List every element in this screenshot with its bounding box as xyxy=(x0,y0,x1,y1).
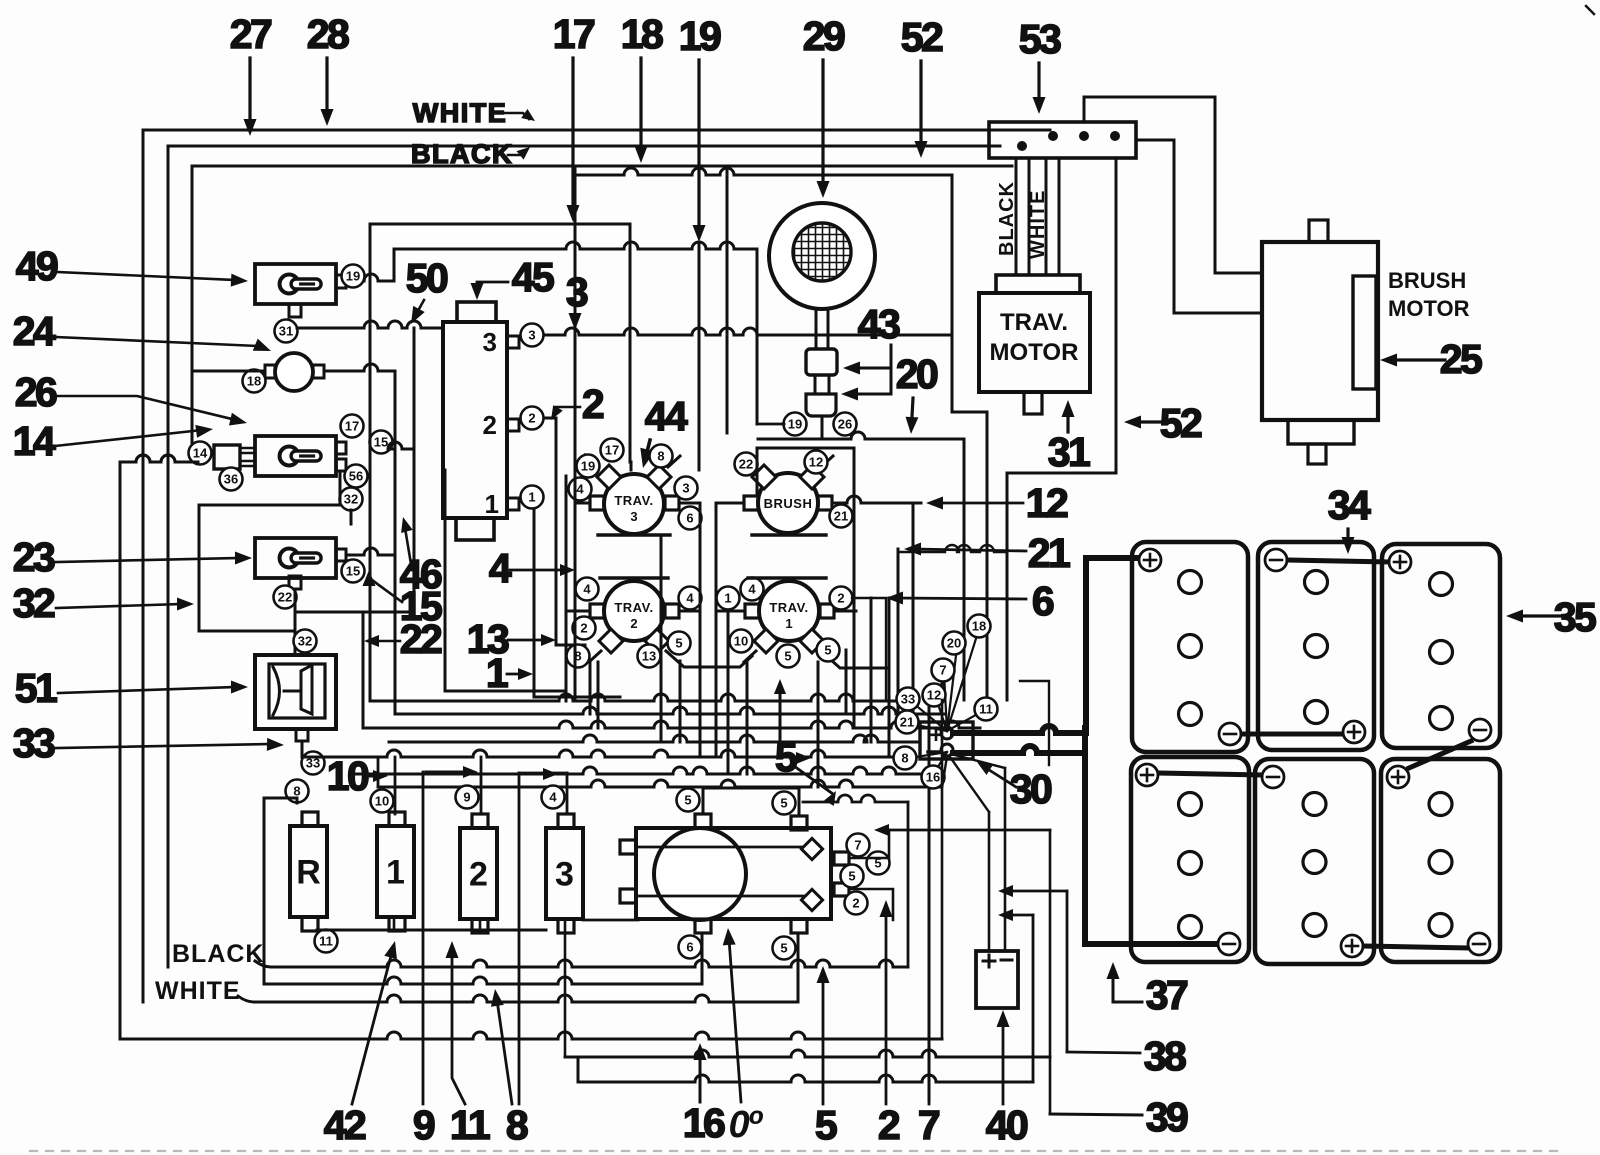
svg-text:18: 18 xyxy=(621,11,663,57)
terminal dot mid xyxy=(1079,131,1089,141)
fan wires minus xyxy=(916,752,947,757)
squiggle left xyxy=(120,455,198,462)
motor frame xyxy=(636,828,831,919)
terminal 5 TRAV2 xyxy=(668,632,691,655)
terminal 32 R51 xyxy=(294,630,317,653)
svg-text:11: 11 xyxy=(319,934,333,949)
TRAV3 diamond tr xyxy=(647,465,671,489)
wire x747 drop xyxy=(746,662,749,774)
terminal 19 horn xyxy=(784,413,807,436)
svg-text:4: 4 xyxy=(489,545,512,591)
wire white main top xyxy=(143,129,1050,132)
wire 1049 drop xyxy=(1020,681,1049,765)
wire pin1 xyxy=(534,509,620,697)
wire connector to brushmotor xyxy=(1136,140,1262,313)
terminal 8 TRAV2 xyxy=(567,645,590,668)
wire left vertical third xyxy=(191,166,194,462)
svg-text:8: 8 xyxy=(657,449,664,464)
BRUSH tab right xyxy=(818,496,832,510)
wire x942 drop xyxy=(941,668,944,700)
brush motor inner xyxy=(1353,276,1376,389)
wire 38 pointer xyxy=(1008,890,1067,893)
wire K2-15 xyxy=(388,442,414,449)
wire motor right mid2 xyxy=(849,889,893,920)
wire black bottom xyxy=(255,961,271,967)
wire x871 drop xyxy=(870,598,873,742)
relay K2 tab r xyxy=(336,442,346,454)
wire R top loop xyxy=(264,798,297,984)
wire bottom 5th xyxy=(565,1050,1050,1057)
relay K3 tab xyxy=(336,549,346,561)
node plus xyxy=(941,727,953,739)
receptacle bottom tab xyxy=(296,729,308,741)
terminal 32 K2 xyxy=(340,488,363,511)
svg-text:11: 11 xyxy=(979,702,993,717)
terminal 6 TRAV3 xyxy=(679,507,702,530)
TRAV2 diamond br xyxy=(645,629,669,653)
horn socket xyxy=(806,394,836,416)
svg-text:9: 9 xyxy=(463,790,470,805)
wire 50 drop xyxy=(413,328,416,612)
svg-text:7: 7 xyxy=(918,1102,939,1148)
svg-text:24: 24 xyxy=(13,308,56,354)
svg-text:5: 5 xyxy=(784,649,791,664)
wire K1-19 xyxy=(364,274,394,281)
svg-text:17: 17 xyxy=(345,419,359,434)
terminal 8 fan xyxy=(894,747,917,770)
svg-text:21: 21 xyxy=(1028,530,1070,576)
brush motor bottom tab xyxy=(1288,420,1354,444)
wire x846 drop xyxy=(845,650,848,714)
wire resistor3 to motor xyxy=(583,919,638,922)
svg-text:49: 49 xyxy=(16,243,58,289)
wire bottom 6th xyxy=(577,1060,580,1082)
svg-text:12: 12 xyxy=(1026,480,1068,526)
trav motor tab xyxy=(1024,392,1042,414)
svg-text:32: 32 xyxy=(13,580,55,626)
svg-text:3: 3 xyxy=(555,856,574,894)
svg-text:6: 6 xyxy=(1032,578,1054,624)
svg-text:38: 38 xyxy=(1144,1033,1186,1079)
wire x716 drop xyxy=(715,520,718,756)
wire R51 bottom xyxy=(301,741,304,757)
svg-text:56: 56 xyxy=(349,469,363,484)
terminal 33 fan xyxy=(897,688,920,711)
wire R3 bottom drop xyxy=(564,919,567,1057)
wire motor top2 xyxy=(803,795,908,802)
svg-text:14: 14 xyxy=(13,418,56,464)
svg-text:2: 2 xyxy=(580,621,587,636)
wire y787 xyxy=(378,780,940,787)
svg-text:8: 8 xyxy=(506,1102,528,1148)
wire x572 lower xyxy=(574,503,577,700)
svg-text:2: 2 xyxy=(483,410,497,440)
motor tab top1 xyxy=(695,814,711,828)
wire K1-19 up xyxy=(393,249,396,281)
motor tab top2 xyxy=(791,816,807,830)
svg-text:27: 27 xyxy=(230,11,271,57)
terminal dot right xyxy=(1110,131,1120,141)
wire x1050 long xyxy=(1049,830,1052,1114)
svg-text:2: 2 xyxy=(878,1102,900,1148)
bar B4-B5 xyxy=(1159,773,1261,775)
terminal 17 K2 xyxy=(341,415,364,438)
svg-text:1: 1 xyxy=(386,854,405,892)
TRAV2 tab right xyxy=(665,604,679,618)
relay coil BRUSH xyxy=(758,473,818,533)
svg-text:21: 21 xyxy=(834,509,848,524)
svg-text:16: 16 xyxy=(926,770,940,785)
TRAV1 topline xyxy=(748,576,826,579)
wire TRAV1 right xyxy=(834,610,856,613)
svg-text:52: 52 xyxy=(901,14,943,60)
node minus xyxy=(941,744,953,756)
svg-text:18: 18 xyxy=(972,619,986,634)
BRUSH diamond tr xyxy=(800,465,824,489)
wire R1 top xyxy=(394,757,397,814)
svg-text:6: 6 xyxy=(686,940,693,955)
terminal 17 TRAV3 xyxy=(601,439,624,462)
terminal 12 fan xyxy=(923,684,946,707)
svg-text:40: 40 xyxy=(986,1102,1028,1148)
svg-text:17: 17 xyxy=(605,443,619,458)
wire minus tail xyxy=(942,756,947,788)
battery B6 xyxy=(1381,759,1500,962)
svg-text:32: 32 xyxy=(344,492,358,507)
terminal 21 fan xyxy=(896,711,919,734)
black bar to trav motor xyxy=(1016,158,1029,275)
battery B1 xyxy=(1132,542,1248,752)
svg-text:4: 4 xyxy=(549,790,557,805)
svg-text:32: 32 xyxy=(298,634,312,649)
svg-text:7: 7 xyxy=(854,838,861,853)
svg-text:42: 42 xyxy=(324,1102,366,1148)
battery connector block xyxy=(920,722,973,759)
svg-text:19: 19 xyxy=(581,459,595,474)
terminal 36 K2 xyxy=(220,468,243,491)
motor tab bot2 xyxy=(791,919,807,933)
TRAV3 underline xyxy=(598,533,670,536)
terminal 8 TRAV3 xyxy=(650,445,673,468)
svg-text:3: 3 xyxy=(566,269,588,315)
control box U45 xyxy=(443,322,507,518)
svg-text:WHITE: WHITE xyxy=(155,977,241,1005)
svg-text:5: 5 xyxy=(675,636,682,651)
battery B2 xyxy=(1258,542,1374,750)
brush motor top tab xyxy=(1309,220,1328,242)
wire TRAV1 left xyxy=(716,610,745,613)
svg-text:10: 10 xyxy=(734,634,748,649)
svg-text:34: 34 xyxy=(1328,482,1371,528)
terminal 19 K1 xyxy=(342,265,365,288)
bundle wire 1 xyxy=(370,694,905,701)
terminal 15 K3 xyxy=(342,560,365,583)
svg-text:4: 4 xyxy=(583,582,591,597)
wire y249 xyxy=(394,242,757,249)
wire resistor bottoms xyxy=(317,929,546,932)
scan artifact mark topright xyxy=(1586,6,1594,14)
TRAV1 tab left xyxy=(745,604,759,618)
motor tab left2 xyxy=(620,889,636,903)
wire x913 drop xyxy=(912,503,915,728)
svg-text:33: 33 xyxy=(901,692,915,707)
svg-text:2: 2 xyxy=(852,896,859,911)
terminal 26 horn xyxy=(834,413,857,436)
svg-text:MOTOR: MOTOR xyxy=(990,339,1079,366)
svg-text:2: 2 xyxy=(469,856,488,894)
TRAV3 tab left xyxy=(590,496,604,510)
wire bottom 4th xyxy=(120,1032,942,1039)
svg-text:2: 2 xyxy=(630,616,637,631)
wire y552 xyxy=(898,545,1007,552)
terminal 1 TRAV1 xyxy=(717,587,740,610)
BRUSH underline xyxy=(752,533,826,536)
svg-text:22: 22 xyxy=(739,457,753,472)
terminal 22 BRUSH xyxy=(735,453,758,476)
svg-text:31: 31 xyxy=(279,324,293,339)
wire x700 drop xyxy=(699,510,702,756)
terminal 56 K2 xyxy=(345,465,368,488)
svg-text:7: 7 xyxy=(939,663,946,678)
arrow right mid1 xyxy=(426,771,466,774)
bundle wire 5 xyxy=(302,750,905,757)
terminal 5b TRAV1 xyxy=(817,639,840,662)
svg-text:R: R xyxy=(296,854,321,892)
wire y175 xyxy=(574,166,577,175)
terminal 7 motor xyxy=(847,834,870,857)
terminal 11 fan xyxy=(975,698,998,721)
svg-text:BLACK: BLACK xyxy=(172,940,265,968)
terminal 5 top2 xyxy=(773,792,796,815)
wire M24 right xyxy=(324,364,395,371)
wire x575 drop xyxy=(574,175,577,503)
wire 52 drop lower xyxy=(1006,473,1009,700)
svg-text:TRAV.: TRAV. xyxy=(769,600,808,615)
svg-text:43: 43 xyxy=(858,301,900,347)
svg-text:4: 4 xyxy=(576,482,584,497)
wire 33 drop xyxy=(377,757,380,787)
bundle wire 4 xyxy=(389,735,918,742)
svg-text:3: 3 xyxy=(483,327,497,357)
svg-text:3: 3 xyxy=(682,481,689,496)
wire mid bottom xyxy=(264,977,702,984)
wire charger left top xyxy=(988,812,991,951)
svg-text:13: 13 xyxy=(642,649,656,664)
svg-text:30: 30 xyxy=(1010,766,1052,812)
wire inner box top xyxy=(370,224,630,462)
wire 20 vert xyxy=(963,439,966,700)
terminal 8 R xyxy=(286,780,309,803)
svg-text:5: 5 xyxy=(780,796,787,811)
TRAV2 topline xyxy=(600,576,668,579)
terminal 2 motor xyxy=(845,892,868,915)
terminal 2 U45 xyxy=(521,407,544,430)
bar B5-B6 xyxy=(1364,946,1467,948)
wire x445 xyxy=(445,470,566,691)
terminal 18 M24 xyxy=(243,370,266,393)
brush motor U3 xyxy=(1262,242,1378,420)
svg-text:4: 4 xyxy=(748,582,756,597)
svg-text:18: 18 xyxy=(247,374,261,389)
svg-text:1: 1 xyxy=(486,650,508,696)
svg-text:5: 5 xyxy=(684,793,691,808)
wire BRUSH right xyxy=(832,496,921,503)
wire M24 left xyxy=(192,370,265,373)
terminal dot white xyxy=(1048,131,1058,141)
svg-text:12: 12 xyxy=(927,688,941,703)
wire x929 7line xyxy=(928,700,931,1100)
wire x728 drop xyxy=(727,611,730,774)
svg-text:11: 11 xyxy=(450,1102,490,1148)
white bar to trav motor xyxy=(1046,158,1059,275)
battery B3 xyxy=(1382,544,1500,748)
plug symbol xyxy=(273,667,301,715)
svg-text:22: 22 xyxy=(400,616,442,662)
wire motor top1 xyxy=(703,788,799,816)
relay K2 tab r2 xyxy=(336,459,346,471)
wire jog third-to-bottom xyxy=(120,455,192,462)
relay coil TRAV1 xyxy=(759,581,819,641)
wire x566 xyxy=(565,476,568,701)
svg-text:1: 1 xyxy=(528,490,535,505)
TRAV1 tab right xyxy=(820,604,834,618)
terminal 4 R3 xyxy=(542,786,565,809)
wire K2-32 xyxy=(350,510,353,524)
svg-text:5: 5 xyxy=(848,869,855,884)
terminal 5 motor b xyxy=(841,865,864,888)
wire K1-31 xyxy=(297,321,443,328)
wire K2-56 drop xyxy=(339,471,342,505)
svg-text:45: 45 xyxy=(512,254,554,300)
terminal 5 top1 xyxy=(677,789,700,812)
svg-text:15: 15 xyxy=(374,435,388,450)
bar B2-B3 xyxy=(1288,560,1388,562)
svg-text:2: 2 xyxy=(582,381,604,427)
TRAV1 diamond br xyxy=(800,629,824,653)
svg-text:22: 22 xyxy=(278,590,292,605)
terminal 11 R xyxy=(315,930,338,953)
svg-text:BRUSH: BRUSH xyxy=(764,496,813,511)
BRUSH tab left xyxy=(744,496,758,510)
wire R3 top xyxy=(519,772,567,775)
relay K1 tab xyxy=(336,275,346,288)
wire connector top loop xyxy=(1084,97,1262,273)
TRAV3 tab right xyxy=(665,496,679,510)
wire left vertical fourth xyxy=(119,462,122,1038)
svg-text:26: 26 xyxy=(838,417,852,432)
terminal 9 R2 xyxy=(456,786,479,809)
svg-text:3: 3 xyxy=(528,328,535,343)
svg-text:TRAV.: TRAV. xyxy=(614,493,653,508)
svg-text:12: 12 xyxy=(809,455,823,470)
terminal 5 motor a xyxy=(867,852,890,875)
svg-text:2: 2 xyxy=(837,591,844,606)
svg-text:19: 19 xyxy=(679,13,721,59)
relay K3 bottom tab xyxy=(289,576,301,589)
wire 39 pointer mid xyxy=(1008,914,1033,917)
relay coil TRAV2 xyxy=(604,581,664,641)
svg-text:39: 39 xyxy=(1146,1094,1188,1140)
svg-text:46: 46 xyxy=(400,551,442,597)
wire x598 drop xyxy=(597,662,600,728)
svg-text:TRAV.: TRAV. xyxy=(1000,309,1068,336)
svg-text:50: 50 xyxy=(406,255,448,301)
battery B4 xyxy=(1131,757,1249,962)
horn stem xyxy=(815,309,818,349)
plug P14 xyxy=(214,445,240,469)
wire x699 drop xyxy=(698,244,701,470)
terminal 7 fan xyxy=(932,659,955,682)
terminal 4 TRAV1 xyxy=(741,578,764,601)
svg-text:1: 1 xyxy=(724,591,731,606)
terminal 3 U45 xyxy=(521,324,544,347)
resistor 1 xyxy=(377,826,414,917)
motor M24 xyxy=(275,353,313,391)
terminal 2 TRAV2 xyxy=(573,617,596,640)
fan wires plus xyxy=(947,629,979,731)
wire pin2 xyxy=(544,418,585,645)
terminal 1 U45 xyxy=(521,486,544,509)
wire white bottom xyxy=(238,996,254,1002)
resistor 2 xyxy=(460,828,497,919)
arrow right mid2 xyxy=(516,773,546,776)
terminal 6 motor xyxy=(679,936,702,959)
motor tab left1 xyxy=(620,840,636,854)
scan artifact dots bottom xyxy=(30,1150,1560,1152)
svg-text:10: 10 xyxy=(327,753,369,799)
wire 987 lower xyxy=(986,560,989,700)
terminal 10 TRAV1 xyxy=(730,630,753,653)
terminal 4 TRAV3 xyxy=(569,478,592,501)
svg-text:51: 51 xyxy=(15,665,57,711)
svg-text:5: 5 xyxy=(815,1102,837,1148)
TRAV2 diamond bl xyxy=(599,629,623,653)
svg-text:26: 26 xyxy=(15,369,57,415)
motor diamond r1 xyxy=(801,838,822,859)
terminal dot black xyxy=(1017,141,1027,151)
svg-text:15: 15 xyxy=(346,564,360,579)
motor rotor xyxy=(654,828,746,920)
horn grille xyxy=(793,223,851,281)
wire trav1-2 drop xyxy=(852,598,886,700)
bar B1-B2 xyxy=(1242,732,1342,737)
svg-text:9: 9 xyxy=(413,1102,435,1148)
svg-text:19: 19 xyxy=(346,269,360,284)
TRAV1 diamond bl xyxy=(754,629,778,653)
wire x898 drop xyxy=(897,549,900,718)
wire inner left xyxy=(369,224,372,701)
svg-text:8: 8 xyxy=(293,784,300,799)
battery B5 xyxy=(1255,759,1374,964)
motor inner wires xyxy=(636,846,806,849)
trav motor cap xyxy=(996,275,1080,293)
svg-text:4: 4 xyxy=(686,591,694,606)
bundle wire 6 xyxy=(352,767,929,774)
svg-text:5: 5 xyxy=(780,941,787,956)
svg-text:1: 1 xyxy=(485,489,499,519)
svg-text:14: 14 xyxy=(193,446,208,461)
bar B3-B6 diag xyxy=(1409,741,1471,768)
svg-text:2: 2 xyxy=(528,411,535,426)
terminal 4 TRAV2 xyxy=(576,578,599,601)
box 45 cap xyxy=(457,302,496,322)
BRUSH diamond tl xyxy=(752,465,776,489)
motor diamond r2 xyxy=(801,889,822,910)
connector block 53 xyxy=(989,122,1136,158)
wire third top xyxy=(192,165,1012,168)
svg-text:44: 44 xyxy=(645,393,688,439)
wire TRAV3 left xyxy=(575,502,590,505)
